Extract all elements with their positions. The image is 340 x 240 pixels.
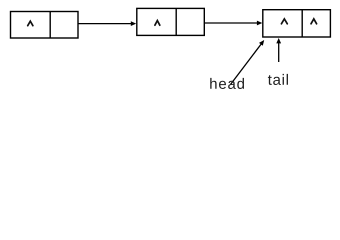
wire arrow node1 to node2 [79,23,132,25]
node 3 divider [301,10,303,37]
node 2 null marker ^ [155,21,160,26]
node 3 null marker ^ left cell [281,19,287,24]
node 2 divider [175,8,177,35]
head pointer arrow [231,44,262,85]
node 3 box [263,10,331,37]
node 1 null marker ^ [28,21,33,26]
wire arrow node2 to node3 [205,22,258,24]
node 3 null marker ^ right cell [311,19,317,24]
node 1 box [11,12,79,39]
label tail [268,74,288,85]
node 1 divider [49,12,51,39]
label head [210,78,244,89]
node 2 box [137,8,205,35]
tail pointer arrow [278,43,280,62]
